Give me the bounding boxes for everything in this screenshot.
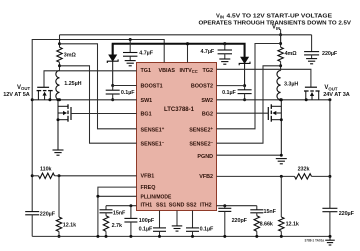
resistor 4mOhm sense: [278, 47, 283, 61]
node VFB2 232k tap: [328, 175, 331, 178]
capacitor 220uF input: [311, 35, 313, 52]
wire ground rail: [32, 235, 330, 237]
resistor 110k: [39, 173, 55, 178]
resistor 232k: [295, 174, 312, 179]
ground (INTVCC cap): [219, 58, 230, 60]
transistor M3 top NMOS (TG2): [305, 86, 317, 88]
node BOOST2: [243, 84, 246, 87]
svg-text:4.7µF: 4.7µF: [139, 50, 153, 56]
ground (rail end): [329, 236, 331, 240]
diode D2 (BOOST2 schottky): [244, 44, 246, 57]
wire VOUT2 rail: [329, 100, 331, 209]
wire ITH1 pin: [106, 205, 137, 207]
transistor M2 bottom NMOS (BG1): [57, 100, 59, 150]
svg-text:VFB2: VFB2: [199, 174, 213, 180]
transistor M1 top NMOS (TG1): [37, 86, 49, 88]
svg-text:VBIAS: VBIAS: [159, 68, 176, 74]
resistor 12.1k (VFB1): [58, 176, 60, 217]
capacitor 0.1uF (SS2): [186, 227, 199, 229]
node 100pF rail: [129, 235, 132, 238]
wire SENSE1+ kelvin: [60, 44, 137, 129]
svg-text:0.1µF: 0.1µF: [139, 226, 153, 232]
resistor 3mOhm sense: [57, 47, 62, 62]
node boost cap to SW2: [243, 98, 246, 101]
node SS2 rail: [191, 235, 194, 238]
svg-text:3mΩ: 3mΩ: [64, 53, 77, 59]
node sense2 bottom: [279, 64, 282, 67]
node VFB2 divider: [280, 175, 283, 178]
node FREQ rail: [96, 235, 99, 238]
wire BOOST2 pin: [217, 85, 245, 87]
svg-text:12.1k: 12.1k: [63, 222, 76, 228]
node INTVCC cap tap: [223, 42, 226, 45]
wire 3mOhm top from VIN rail: [59, 35, 61, 47]
wire INTVCC pin stub: [187, 44, 189, 63]
wire SW1 node: [32, 99, 136, 101]
svg-text:1.25µH: 1.25µH: [64, 81, 81, 87]
svg-text:PGND: PGND: [197, 154, 213, 160]
inductor L2 3.3uH: [277, 71, 281, 100]
svg-text:BOOST2: BOOST2: [191, 84, 213, 90]
svg-text:0.1µF: 0.1µF: [121, 90, 135, 96]
ground (SGND): [172, 225, 183, 227]
svg-text:3.3µH: 3.3µH: [284, 82, 298, 88]
svg-text:220µF: 220µF: [322, 51, 338, 57]
ground (M2 source): [53, 149, 64, 151]
node VFB1 divider: [58, 174, 61, 177]
wire SENSE2+ kelvin: [217, 44, 281, 129]
svg-text:220µF: 220µF: [40, 211, 56, 217]
wire SENSE1- kelvin: [60, 66, 137, 143]
svg-text:ITH1: ITH1: [141, 203, 153, 209]
wire BOOST1 pin: [113, 85, 137, 87]
svg-text:SS1: SS1: [156, 203, 166, 209]
wire VOUT1 rail to ground rail: [31, 215, 33, 237]
node 110k to rail: [31, 174, 34, 177]
capacitor 15nF (ITH2): [256, 206, 258, 210]
svg-text:SW2: SW2: [201, 98, 213, 104]
resistor 8.66k (ITH2): [256, 213, 258, 216]
svg-text:0.1µF: 0.1µF: [200, 226, 214, 232]
capacitor 100pF: [130, 206, 132, 219]
svg-text:VIN: VIN: [216, 14, 224, 20]
svg-text:PLLIN/MODE: PLLIN/MODE: [141, 194, 172, 200]
wire 4mOhm top from VIN rail: [280, 35, 282, 47]
node sense2 top: [279, 42, 282, 45]
ground (VBIAS cap): [125, 60, 136, 62]
capacitor 4.7uF (INTVCC bypass): [224, 44, 226, 50]
svg-text:4mΩ: 4mΩ: [285, 51, 298, 57]
svg-text:VFB1: VFB1: [141, 174, 155, 180]
wire SS2 pin: [192, 211, 194, 228]
node PGND star: [280, 154, 283, 157]
svg-text:BG2: BG2: [202, 111, 213, 117]
svg-text:0.1µF: 0.1µF: [222, 90, 236, 96]
node SS1 rail: [158, 235, 161, 238]
svg-text:4.5V TO 12V START-UP VOLTAGE: 4.5V TO 12V START-UP VOLTAGE: [227, 14, 333, 20]
diode D1 (BOOST1 schottky): [112, 44, 114, 55]
svg-text:VOUT: VOUT: [17, 85, 30, 91]
svg-text:SENSE1+: SENSE1+: [141, 126, 165, 134]
wire INTVCC heavy rail: [113, 44, 245, 57]
node 220pF rail: [223, 235, 226, 238]
node boost cap to SW1: [111, 98, 114, 101]
svg-text:232k: 232k: [298, 167, 310, 173]
svg-text:SENSE2+: SENSE2+: [189, 126, 213, 134]
node 12.1k rail: [58, 235, 61, 238]
svg-text:LTC3788-1: LTC3788-1: [164, 107, 195, 113]
svg-text:SW1: SW1: [141, 98, 153, 104]
node BOOST1: [111, 84, 114, 87]
ground (input cap): [306, 58, 317, 60]
node ITH2 220pF tap: [223, 204, 226, 207]
svg-text:220pF: 220pF: [232, 218, 248, 224]
wire PGND pin: [217, 154, 282, 156]
wire VIN drop to rail: [280, 29, 282, 43]
svg-text:2.7k: 2.7k: [112, 223, 122, 229]
node sense1 top: [58, 42, 61, 45]
wire VFB1 pin: [59, 175, 137, 177]
svg-text:VIN: VIN: [272, 25, 280, 31]
svg-text:15nF: 15nF: [113, 210, 126, 216]
svg-text:SS2: SS2: [186, 203, 196, 209]
capacitor 15nF (ITH1): [105, 206, 107, 210]
wire SGND pin: [176, 211, 178, 226]
capacitor 0.1uF (SS1): [153, 227, 166, 229]
node sense1 bottom: [58, 64, 61, 67]
svg-text:24V AT 3A: 24V AT 3A: [323, 92, 350, 98]
capacitor 4.7uF (VBIAS bypass): [129, 40, 131, 53]
svg-text:BG1: BG1: [141, 112, 152, 118]
capacitor 0.1uF (BOOST1): [112, 86, 114, 91]
svg-text:SENSE1–: SENSE1–: [141, 140, 165, 148]
wire VBIAS line from VOUT1 rail: [32, 40, 164, 212]
IC U1 LTC3788-1: [137, 63, 217, 211]
wire ITH2 pin: [217, 205, 257, 207]
wire PLLIN/MODE pin: [98, 195, 137, 197]
capacitor 220uF output2: [322, 207, 337, 209]
svg-text:100pF: 100pF: [139, 218, 155, 224]
wire TG1 route: [44, 71, 137, 88]
capacitor 220uF output1: [25, 211, 39, 213]
wire BG1 pin: [71, 113, 137, 115]
svg-text:VOUT: VOUT: [324, 85, 337, 91]
capacitor 220pF: [224, 206, 226, 209]
ground (PGND): [276, 158, 287, 160]
svg-text:ITH2: ITH2: [200, 203, 212, 209]
svg-text:220µF: 220µF: [339, 211, 355, 217]
node VIN rail junction: [279, 33, 282, 36]
svg-text:TG2: TG2: [203, 68, 213, 74]
wire SW2 node: [217, 99, 330, 101]
inductor L1 1.25uH: [56, 71, 60, 100]
wire VFB2 pin: [217, 175, 295, 177]
svg-text:4.7µF: 4.7µF: [201, 49, 215, 55]
node ITH1 100pF tap: [129, 204, 132, 207]
wire SS1 pin: [159, 211, 161, 228]
svg-text:INTVCC: INTVCC: [180, 68, 198, 74]
wire BG2 pin: [217, 112, 269, 114]
resistor 2.7k (ITH1): [105, 213, 107, 216]
capacitor 0.1uF (BOOST2): [244, 86, 246, 90]
svg-text:3788-1 TA01a: 3788-1 TA01a: [305, 239, 325, 243]
svg-text:110k: 110k: [40, 167, 52, 173]
node L1 bottom: [58, 98, 61, 101]
node 8.66k rail: [255, 235, 258, 238]
node 2.7k rail: [105, 235, 108, 238]
node VOUT2 corner: [328, 98, 331, 101]
svg-text:15nF: 15nF: [264, 209, 277, 215]
svg-text:8.66k: 8.66k: [260, 222, 273, 228]
node L2 bottom: [279, 98, 282, 101]
svg-text:SGND: SGND: [169, 203, 185, 209]
wire FREQ pin: [98, 187, 137, 236]
svg-text:12V AT 5A: 12V AT 5A: [3, 92, 30, 98]
wire VIN top rail: [60, 34, 312, 36]
node 12.1k rail: [280, 235, 283, 238]
node VBIAS cap tap: [129, 38, 132, 41]
wire SENSE2- kelvin: [217, 66, 281, 143]
svg-text:TG1: TG1: [141, 68, 151, 74]
node FREQ/PLLIN: [96, 195, 99, 198]
node VOUT1 at switch wire: [31, 98, 34, 101]
resistor 12.1k (VFB2): [280, 176, 282, 217]
transistor M4 bottom NMOS (BG2): [280, 100, 282, 155]
svg-text:FREQ: FREQ: [141, 185, 156, 191]
svg-text:SENSE2–: SENSE2–: [189, 140, 213, 148]
wire TG2 route: [217, 69, 311, 87]
svg-text:12.1k: 12.1k: [286, 222, 299, 228]
svg-text:BOOST1: BOOST1: [141, 84, 163, 90]
